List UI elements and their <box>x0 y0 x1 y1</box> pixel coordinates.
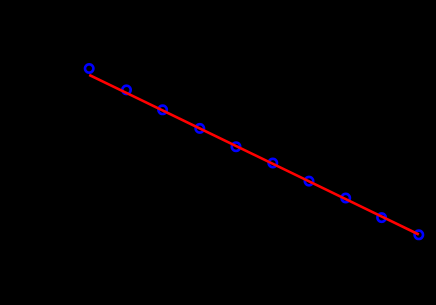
data point marker 7 <box>305 177 313 185</box>
red linear fit line <box>89 75 419 235</box>
data point marker 3 <box>158 106 166 114</box>
data point marker 4 <box>196 124 204 132</box>
data point marker 9 <box>377 213 385 221</box>
data point marker 2 <box>122 86 130 94</box>
data point marker 1 <box>85 64 93 72</box>
data point marker 5 <box>232 143 240 151</box>
data point marker 6 <box>269 159 277 167</box>
data point marker 8 <box>342 194 350 202</box>
data point marker 10 <box>415 231 423 239</box>
